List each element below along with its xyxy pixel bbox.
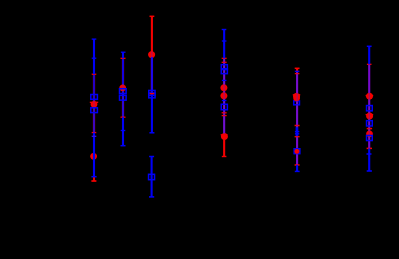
wire blue stripe C4 (223, 58, 225, 134)
red cap C5 b (295, 73, 300, 75)
blue square C2 b (120, 95, 127, 100)
red cap C3 top (150, 15, 155, 17)
wire red overlap line C4 (223, 58, 225, 134)
blue cap C1 bottom (91, 176, 96, 178)
wire blue line C2 lower (122, 117, 124, 146)
blue square C3 b (149, 93, 155, 98)
wire red line C5 top (296, 68, 298, 71)
blue cap C1 c (92, 135, 97, 137)
blue cap C5 top (295, 70, 300, 72)
red cap C3 inner (150, 93, 155, 95)
blue square C6 b (367, 121, 373, 126)
blue square C2 a (120, 89, 127, 94)
wire red under line C1 (93, 74, 95, 132)
blue cap C4 top (222, 29, 227, 31)
red cap C4 a (222, 57, 227, 59)
wire blue line C4 upper (223, 30, 225, 59)
wire red line C3 upper (151, 16, 153, 55)
blue cap C2 top (121, 51, 126, 53)
red circle C6 a (366, 93, 373, 100)
blue cap C1 top (92, 38, 97, 40)
blue square C4 b (221, 69, 227, 74)
blue square C6 a (367, 106, 373, 111)
blue cap C6 mid (367, 153, 372, 155)
blue cap C3 mid (149, 132, 154, 134)
red cap C5 c (295, 125, 300, 127)
blue square C5 a (294, 101, 300, 105)
wire blue line C1 lower (93, 133, 95, 177)
red circle C3 (148, 51, 155, 58)
wire blue stripe C5 (296, 71, 298, 171)
red cap C1 a (92, 73, 97, 75)
wire blue line C5 bottom (296, 165, 298, 171)
wire blue line C3 mid (151, 57, 153, 133)
blue cap C4 d (222, 100, 227, 102)
blue square C3 a (149, 90, 155, 95)
wire red overlap line C6 (368, 64, 370, 148)
blue cap C6 bottom (367, 170, 372, 172)
blue cap C3 lower bottom (149, 196, 154, 198)
blue cap C6 top (367, 45, 372, 47)
red cap C5 d (295, 136, 300, 138)
blue cap C1 b (92, 57, 97, 59)
wire blue line C6 upper (368, 46, 370, 64)
blue square C1 a (91, 95, 98, 100)
wire blue thick bar C5 (296, 127, 299, 136)
red cap C6 c (367, 128, 372, 130)
red cap C6 bottom (367, 147, 372, 149)
wire blue line C1 upper (93, 39, 95, 74)
red circle C1 b (90, 153, 97, 160)
wire blue over line C2 (122, 58, 124, 117)
red circle C2 (119, 85, 126, 92)
red cap C1 ears (90, 101, 98, 103)
blue cap C2 b (121, 130, 126, 132)
red cap C1 bottom (91, 180, 96, 182)
wire blue stripe C1 (93, 99, 95, 133)
wire blue stripe C2 (122, 84, 124, 117)
red cap C5 ears (293, 94, 301, 96)
wire red overlap line C5 (296, 71, 298, 165)
blue cap C4 b (222, 40, 227, 42)
blue cap C3 lower top (149, 156, 154, 158)
red cap C2 b (121, 116, 126, 118)
red circle C5 a (293, 93, 300, 100)
blue cap C5 m2 (295, 133, 299, 135)
red cap C4 ears (221, 134, 228, 136)
blue cap C5 bottom (295, 170, 300, 172)
blue square C1 b (91, 108, 98, 113)
red circle C4 c (221, 133, 228, 140)
wire red line C4 lower (223, 134, 225, 156)
wire blue line C6 lower (368, 148, 370, 171)
wire red under line C3 (151, 55, 153, 93)
red circle C5 b (294, 149, 299, 154)
wire red tail C1 (93, 177, 95, 181)
blue cap C4 c (222, 79, 227, 81)
red cap C6 ears b (366, 114, 374, 116)
red cap C6 top (367, 63, 372, 65)
blue square C4 a (221, 65, 227, 70)
red cap C6 ears a (366, 95, 374, 97)
wire red under line C2 (122, 58, 124, 117)
red circle C1 a (91, 101, 98, 108)
red cap C5 bottom (295, 164, 300, 166)
red cap C4 c (222, 112, 227, 114)
wire blue over line C1 (93, 74, 95, 132)
blue square C6 c (367, 135, 373, 140)
red circle C5 a2 (293, 95, 300, 102)
red circle C4 a (220, 84, 227, 91)
red cap C1 b (92, 132, 97, 134)
red cap C4 bottom (222, 156, 227, 158)
blue square C4 c (221, 104, 227, 110)
red circle C6 c (366, 131, 373, 138)
blue cap C5 m1 (295, 131, 299, 133)
red cap C4 d (222, 115, 227, 117)
wire blue stripe C3 (151, 52, 153, 94)
red circle C4 b (220, 92, 227, 99)
wire blue stripe C6 (368, 64, 370, 148)
blue square C5 b (294, 149, 300, 154)
red cap C5 top (295, 67, 300, 69)
red circle C6 b (366, 113, 373, 120)
red cap C4 b (222, 61, 227, 63)
wire blue line C2 upper (122, 52, 124, 58)
blue cap C2 bottom (121, 145, 126, 147)
red cap C2 a (121, 57, 126, 59)
wire blue line C3 lower (151, 157, 153, 197)
blue square C3 c (149, 174, 155, 179)
wire blue over line C3 (151, 57, 153, 93)
